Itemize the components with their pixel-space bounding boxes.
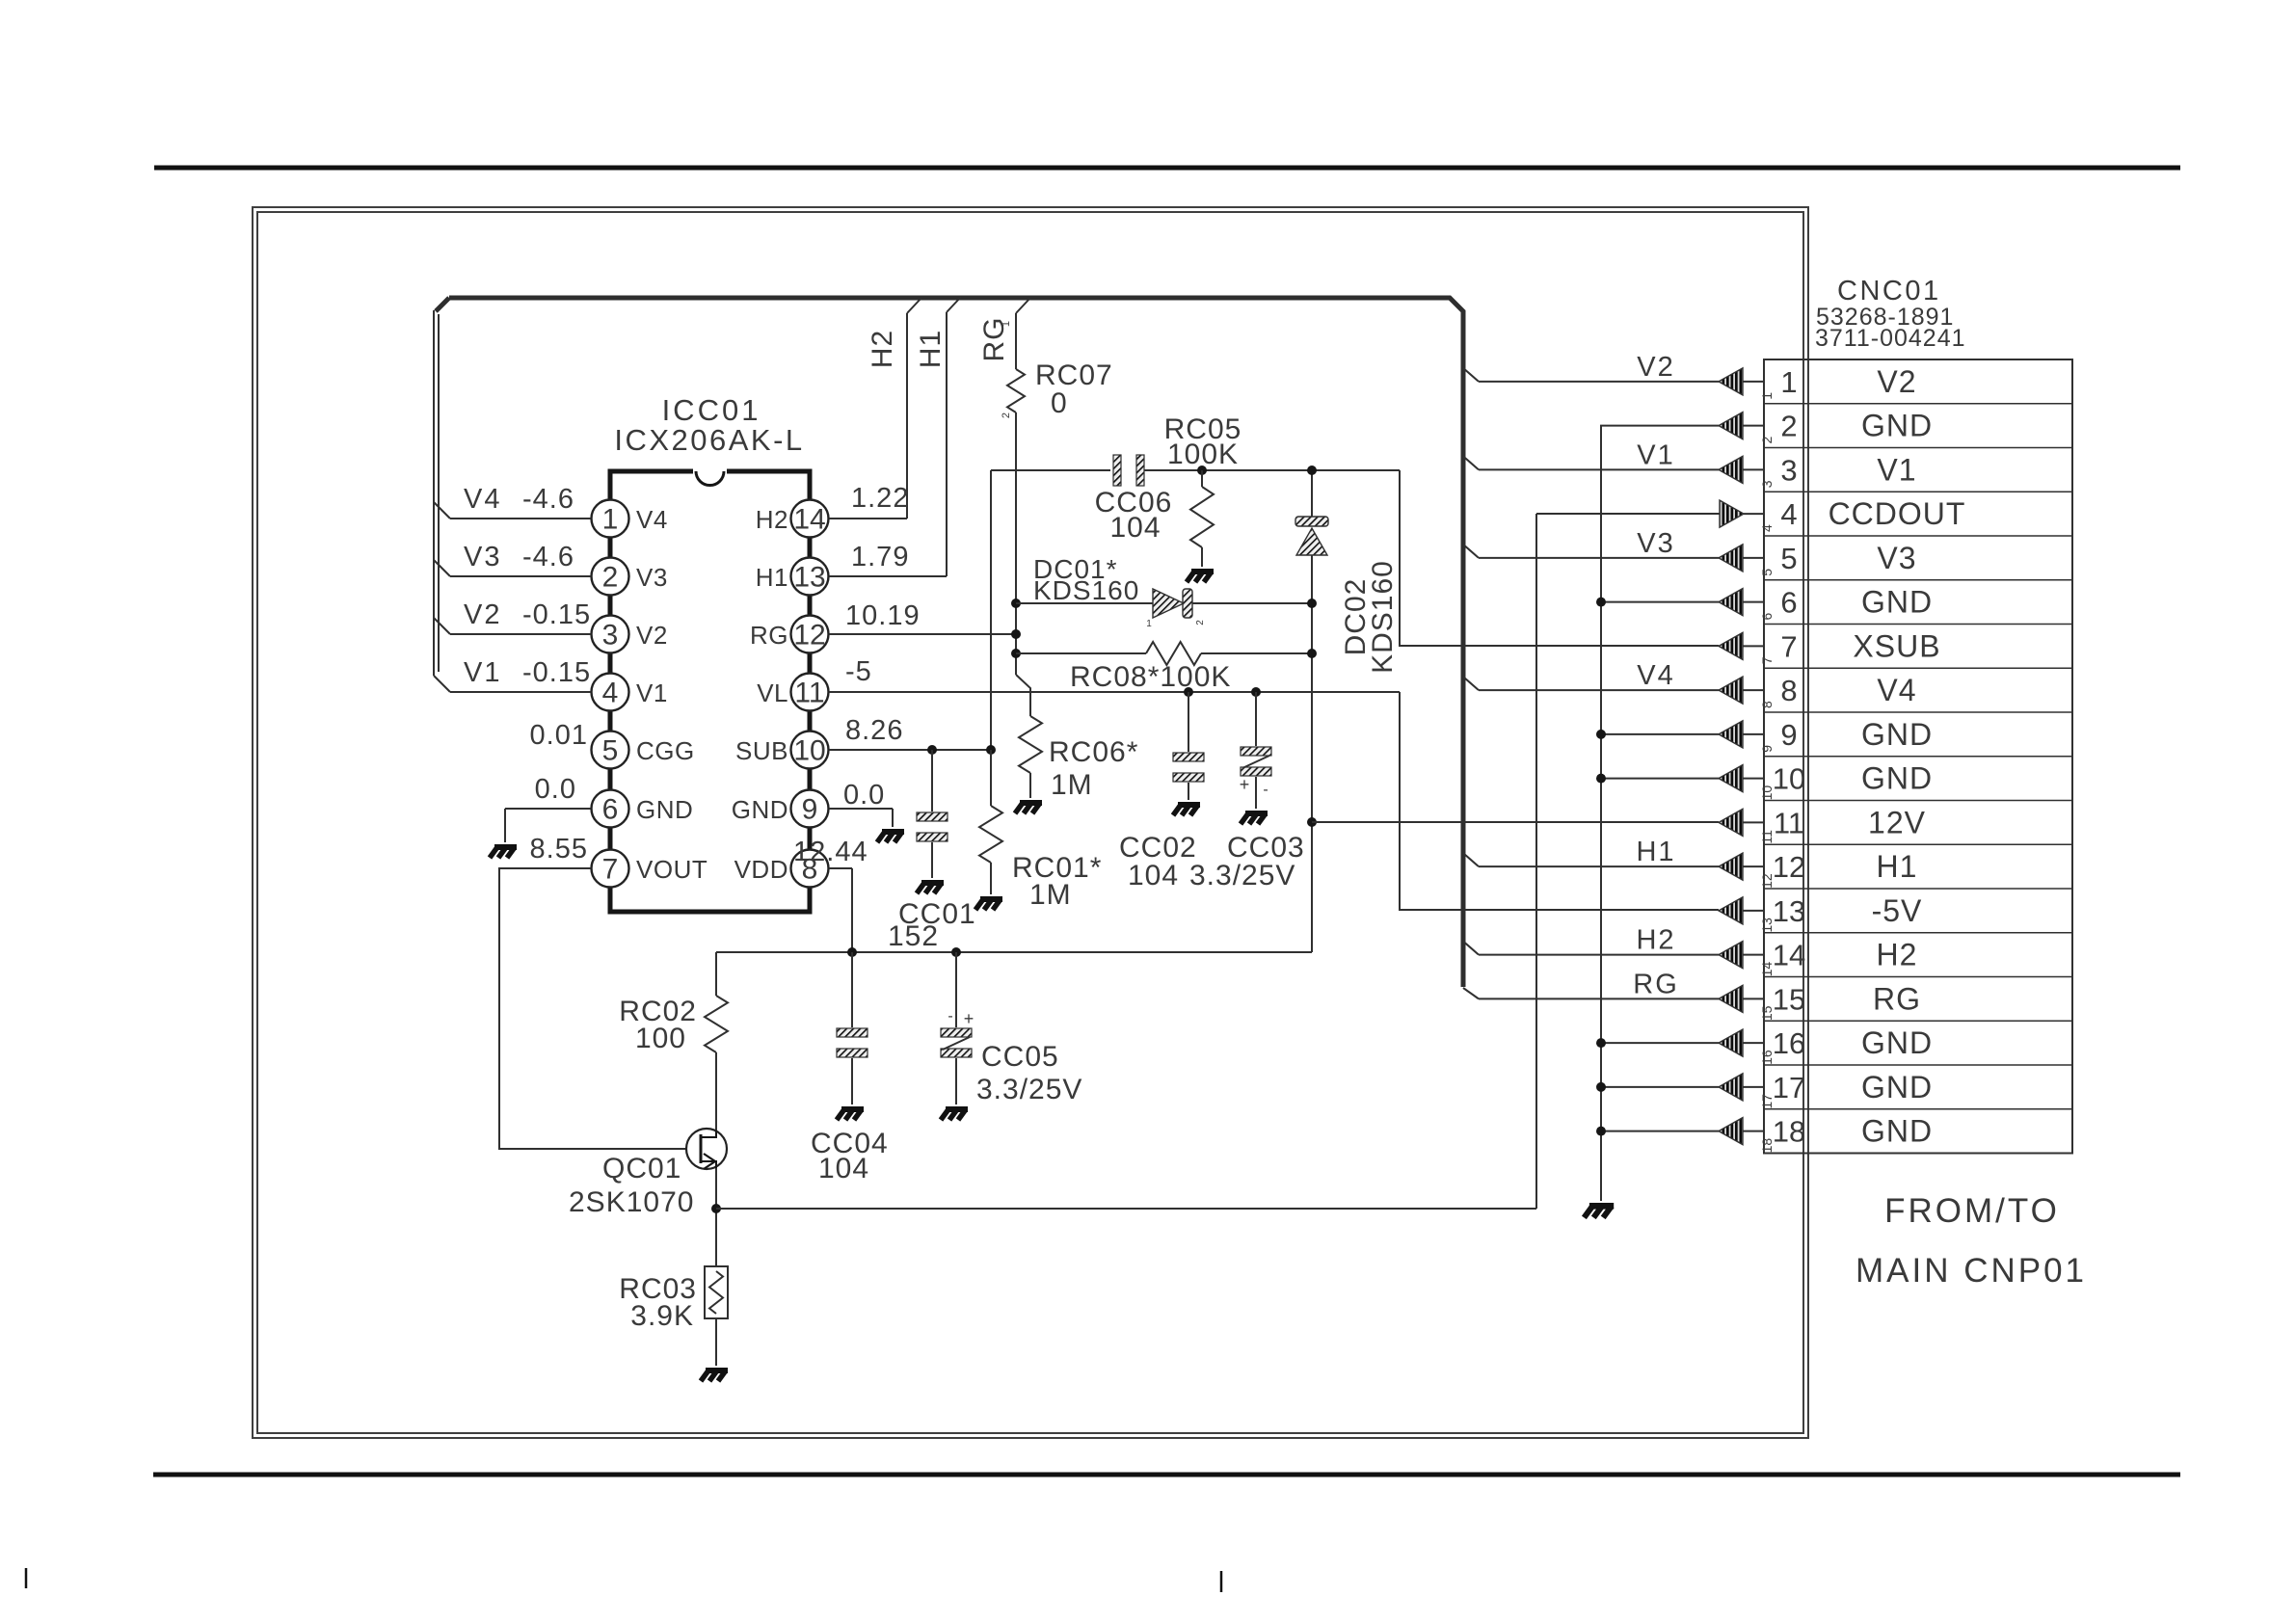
arrow pin4 (out) [1720, 500, 1764, 527]
svg-text:14: 14 [1759, 962, 1775, 977]
connector pin 11 name 12V [1868, 805, 1926, 839]
arrow pin11 (in) [1719, 809, 1764, 836]
label V3 -4.6 [464, 542, 574, 572]
capacitor CC06 [1113, 455, 1144, 486]
connector pin 15 name RG [1873, 981, 1921, 1016]
connector pin 4 number [1759, 497, 1798, 532]
svg-text:6: 6 [1780, 586, 1797, 620]
svg-text:5: 5 [1759, 569, 1775, 576]
svg-text:1M: 1M [1029, 879, 1072, 911]
svg-text:-0.15: -0.15 [522, 657, 591, 688]
svg-text:H1: H1 [915, 330, 947, 368]
arrow pin13 (in) [1719, 897, 1764, 924]
top rule [154, 166, 2180, 171]
svg-text:VL: VL [757, 678, 788, 707]
svg-text:V2: V2 [636, 621, 668, 650]
svg-text:152: 152 [888, 920, 939, 952]
svg-text:-5: -5 [845, 656, 872, 687]
ground CC05 [941, 1109, 968, 1120]
svg-text:+: + [964, 1009, 974, 1028]
svg-text:XSUB: XSUB [1853, 628, 1940, 663]
junction CC02 top [1184, 687, 1193, 697]
svg-text:2: 2 [1780, 410, 1797, 443]
junction CC03 top [1251, 687, 1261, 697]
svg-text:GND: GND [1861, 1025, 1933, 1060]
diode DC01 [1153, 589, 1192, 618]
wire RG stub to connector [1463, 988, 1719, 998]
svg-text:1.79: 1.79 [851, 542, 909, 572]
wire pin6 GND [505, 809, 591, 842]
arrow pin18 (in) [1719, 1118, 1764, 1145]
ground RC05 [1187, 572, 1214, 582]
junction VDD/CC05 [951, 947, 961, 957]
svg-text:3.3/25V: 3.3/25V [1189, 860, 1295, 891]
wire CC05 upper [955, 952, 957, 1027]
label 53268-1891 [1816, 304, 1954, 331]
wire GND pin9 [1601, 733, 1719, 735]
svg-text:V2: V2 [464, 599, 501, 630]
connector pin 13 name -5V [1872, 893, 1923, 928]
svg-text:10: 10 [1773, 762, 1805, 796]
wire H1 stub to connector [1463, 853, 1719, 866]
wire RC01 upper [990, 750, 992, 806]
IC pin 8 (VDD) [734, 850, 829, 888]
connector pin 14 name H2 [1877, 938, 1918, 972]
label 0.01 pin5 [530, 720, 588, 751]
svg-text:GND: GND [636, 795, 693, 824]
arrow pin15 (in) [1719, 985, 1764, 1012]
connector pin 2 name GND [1861, 409, 1933, 443]
connector pin 8 number [1759, 674, 1798, 708]
label DC02 (vert) [1340, 560, 1399, 674]
wire CC01 lower [931, 842, 933, 878]
svg-text:+: + [1240, 775, 1250, 794]
net label RG (vert) [978, 317, 1010, 362]
IC pin 1 (V4) [592, 500, 668, 538]
wire CC02 upper [1188, 692, 1189, 752]
label RC03 [619, 1273, 697, 1332]
wire 12V [1312, 821, 1719, 823]
wire VDD rail [716, 951, 1312, 953]
connector pin 3 name V1 [1877, 452, 1916, 487]
IC pin 9 (GND) [732, 790, 829, 828]
label 1.79 [851, 542, 909, 572]
connector pin 6 number [1759, 586, 1798, 621]
label V2 -0.15 [464, 599, 591, 630]
resistor RC07 [1007, 369, 1025, 412]
svg-text:13: 13 [1759, 918, 1775, 933]
outer border frame [253, 207, 1808, 1438]
connector pin 12 name H1 [1877, 849, 1918, 884]
wire CC02 lower [1188, 783, 1189, 800]
footer tick center [1220, 1571, 1223, 1592]
wire pin4 V1 [434, 676, 591, 692]
svg-text:12: 12 [793, 620, 825, 652]
svg-text:104: 104 [818, 1153, 869, 1184]
label V4 -4.6 [464, 484, 574, 515]
svg-text:0.0: 0.0 [535, 774, 576, 805]
IC pin 14 (H2) [756, 500, 829, 538]
svg-text:14: 14 [793, 504, 825, 536]
svg-text:12: 12 [1759, 873, 1775, 889]
junction GND pin6 [1596, 598, 1606, 607]
svg-text:RG: RG [750, 621, 788, 650]
label CC05 [976, 1041, 1082, 1105]
svg-text:V3: V3 [636, 563, 668, 592]
svg-text:8: 8 [1780, 674, 1797, 707]
svg-text:KDS160: KDS160 [1367, 560, 1399, 674]
connector pin 6 name GND [1861, 585, 1933, 620]
arrow pin10 (in) [1719, 765, 1764, 792]
svg-text:9: 9 [802, 794, 818, 826]
wire pin14 H2 [829, 298, 921, 519]
label -5 [845, 656, 872, 687]
svg-text:CNC01: CNC01 [1837, 276, 1941, 306]
svg-text:-: - [1263, 782, 1268, 798]
svg-text:4: 4 [602, 678, 619, 709]
svg-text:6: 6 [1759, 613, 1775, 621]
arrow pin14 (in) [1719, 942, 1764, 969]
wire pin12 RG [829, 633, 1016, 635]
connector pin 5 number [1759, 542, 1798, 576]
arrow pin3 (in) [1719, 456, 1764, 483]
wire pin10 SUB [829, 749, 991, 751]
connector pin 7 name XSUB [1853, 628, 1940, 663]
svg-text:H1: H1 [1636, 837, 1675, 867]
svg-text:2: 2 [602, 562, 619, 594]
label RC08*100K [1070, 661, 1231, 693]
connector pin 9 number [1759, 718, 1798, 753]
svg-text:VOUT: VOUT [636, 855, 707, 884]
wire RC05 leads [1201, 470, 1203, 567]
ground RC06 [1015, 803, 1042, 813]
IC pin 12 (RG) [750, 616, 829, 653]
ground CC04 [837, 1109, 864, 1120]
net label RG [1633, 969, 1679, 999]
wire CC04 lower [851, 1058, 853, 1104]
svg-text:MAIN CNP01: MAIN CNP01 [1855, 1252, 2087, 1290]
wire GND pin18 [1601, 1131, 1719, 1132]
connector pin 10 number [1759, 762, 1805, 801]
label 12.44 [793, 837, 868, 867]
svg-text:H2: H2 [867, 330, 898, 368]
svg-text:2: 2 [1195, 620, 1206, 625]
IC pin 4 (V1) [592, 674, 668, 711]
wire RC08 left [1016, 652, 1146, 654]
IC pin 13 (H1) [756, 558, 829, 596]
wire XSUB to connector [1400, 470, 1719, 646]
connector pin 4 name CCDOUT [1829, 496, 1966, 531]
svg-text:13: 13 [793, 562, 825, 594]
svg-text:2: 2 [1759, 437, 1775, 444]
svg-text:H2: H2 [756, 505, 788, 534]
svg-text:-: - [948, 1008, 952, 1024]
label V1 -0.15 [464, 657, 591, 688]
IC pin 10 (SUB) [735, 732, 828, 769]
wire pin8 VDD [829, 868, 852, 952]
wire pin7 VOUT to QC01 gate [499, 868, 686, 1149]
svg-text:V1: V1 [636, 678, 668, 707]
wire pin1 V4 [434, 502, 591, 519]
connector pin 2 number [1759, 410, 1798, 444]
capacitor CC01 [917, 812, 948, 841]
net label H2 [1636, 925, 1675, 956]
svg-text:1: 1 [1001, 321, 1012, 327]
label CC02 [1119, 832, 1197, 891]
junction GND pin9 [1596, 730, 1606, 739]
capacitor CC04 [837, 1028, 868, 1057]
ground GND bus [1584, 1206, 1614, 1217]
svg-text:RC06*: RC06* [1049, 736, 1138, 768]
IC label ICC01 [662, 393, 761, 427]
svg-text:1.22: 1.22 [851, 483, 909, 514]
ground pin6 [490, 847, 517, 858]
svg-text:104: 104 [1109, 512, 1161, 544]
svg-text:GND: GND [1861, 717, 1933, 752]
connector pin 10 name GND [1861, 761, 1933, 796]
svg-text:18: 18 [1759, 1138, 1775, 1154]
resistor RC02 [705, 996, 728, 1052]
resistor RC08 [1146, 642, 1201, 665]
IC pin 5 (CGG) [592, 732, 695, 769]
svg-text:KDS160: KDS160 [1033, 575, 1139, 605]
wire XSUB vertical left [990, 470, 992, 750]
IC label ICX206AK-L [614, 423, 804, 457]
ground RC03 [701, 1370, 728, 1381]
svg-text:GND: GND [1861, 409, 1933, 443]
wire CC04 upper [851, 952, 853, 1027]
wire V1 stub to connector [1463, 456, 1719, 469]
label 3711-004241 [1815, 325, 1966, 352]
ground RC01 [975, 899, 1002, 910]
svg-text:1: 1 [602, 504, 619, 536]
wire pin9 GND [829, 809, 893, 827]
svg-text:3.9K: 3.9K [630, 1300, 694, 1332]
svg-text:104: 104 [1128, 860, 1179, 891]
svg-text:-5V: -5V [1872, 893, 1923, 928]
svg-text:GND: GND [1861, 1114, 1933, 1149]
arrow pin16 (in) [1719, 1029, 1764, 1056]
junction SUB/RC01 [986, 745, 996, 755]
IC pin 11 (VL) [757, 674, 828, 711]
wire pin13 H1 [829, 297, 961, 576]
junction QC01/CCDOUT [711, 1204, 721, 1213]
connector pin 12 number [1759, 850, 1805, 889]
svg-text:1: 1 [1146, 619, 1152, 629]
wire RG vertical upper [1016, 298, 1030, 369]
svg-text:11: 11 [1759, 830, 1775, 844]
arrow pin7 (in) [1719, 632, 1764, 659]
junction DC02/RC08 [1307, 649, 1317, 658]
svg-text:3.3/25V: 3.3/25V [976, 1074, 1082, 1105]
wire RC02 to QC01 [715, 1052, 717, 1131]
connector pin 16 number [1759, 1026, 1805, 1065]
svg-text:11: 11 [1774, 806, 1804, 839]
connector pin 1 name V2 [1877, 364, 1916, 399]
svg-text:16: 16 [1759, 1050, 1775, 1065]
label CC03 [1189, 832, 1305, 891]
svg-text:GND: GND [1861, 1070, 1933, 1104]
wire DC01 cathode [1192, 602, 1312, 604]
svg-text:1: 1 [1780, 365, 1797, 399]
svg-text:ICX206AK-L: ICX206AK-L [614, 423, 804, 457]
label 1.22 [851, 483, 909, 514]
svg-text:RG: RG [1633, 969, 1679, 999]
svg-text:RG: RG [1873, 981, 1921, 1016]
svg-text:-0.15: -0.15 [522, 599, 591, 630]
svg-text:5: 5 [1780, 542, 1797, 575]
svg-text:3711-004241: 3711-004241 [1815, 325, 1966, 352]
svg-text:8.26: 8.26 [845, 715, 903, 746]
label 0.0 pin6 [535, 774, 576, 805]
wire H2 stub to connector [1463, 942, 1719, 955]
svg-text:9: 9 [1780, 718, 1797, 752]
net label H1 (vert) [915, 330, 947, 368]
wire CCDOUT [716, 514, 1720, 1209]
wire V3 stub to connector [1463, 545, 1719, 558]
svg-text:CC05: CC05 [981, 1041, 1059, 1073]
arrow pin17 (in) [1719, 1074, 1764, 1101]
capacitor CC02 [1173, 753, 1204, 782]
svg-text:H1: H1 [756, 563, 788, 592]
module outline top/right (thick) [449, 298, 1463, 987]
arrow pin9 (in) [1719, 721, 1764, 748]
svg-text:-4.6: -4.6 [522, 484, 574, 515]
module outline left bus [434, 310, 439, 676]
svg-text:15: 15 [1759, 1005, 1775, 1021]
label 8.26 [845, 715, 903, 746]
label CC01 [888, 898, 976, 952]
label RC01 [1012, 852, 1102, 911]
connector pin 14 number [1759, 939, 1805, 977]
label 8.55 pin7 [530, 834, 588, 865]
svg-text:12: 12 [1773, 850, 1805, 884]
svg-text:ICC01: ICC01 [662, 393, 761, 427]
svg-text:0.0: 0.0 [843, 780, 885, 811]
IC pin 7 (VOUT) [592, 850, 708, 888]
junction DC02 top [1307, 466, 1317, 475]
svg-text:17: 17 [1773, 1071, 1805, 1104]
svg-text:10: 10 [793, 735, 825, 767]
svg-text:3: 3 [602, 620, 619, 652]
arrow pin8 (in) [1719, 677, 1764, 704]
connector pin 11 number [1759, 806, 1804, 843]
svg-text:V1: V1 [1877, 452, 1916, 487]
svg-text:10.19: 10.19 [845, 600, 921, 631]
svg-text:2SK1070: 2SK1070 [569, 1186, 694, 1218]
resistor RC01 [979, 806, 1002, 863]
junction RG/pin12 [1011, 629, 1021, 639]
net label H1 [1636, 837, 1675, 867]
wire -5V to connector [1400, 692, 1719, 910]
wire pin11 VL -5 net [829, 691, 1400, 693]
svg-text:100K: 100K [1167, 439, 1239, 470]
connector CNC01 table [1764, 359, 2072, 1154]
arrow pin5 (in) [1719, 545, 1764, 572]
module outline left bevel [436, 298, 449, 311]
arrow pin1 (in) [1719, 368, 1764, 395]
junction SUB/CC01 [927, 745, 937, 755]
arrow pin6 (in) [1719, 589, 1764, 616]
label 0.0 pin9 [843, 780, 885, 811]
connector pin 17 name GND [1861, 1070, 1933, 1104]
label CNC01 [1837, 276, 1941, 306]
svg-text:16: 16 [1773, 1026, 1805, 1060]
IC pin 2 (V3) [592, 558, 668, 596]
svg-text:14: 14 [1773, 939, 1805, 972]
svg-text:GND: GND [1861, 761, 1933, 796]
label MAIN CNP01 [1855, 1252, 2087, 1290]
label CC06 [1095, 487, 1173, 544]
capacitor CC05 [941, 1008, 974, 1057]
label FROM/TO [1884, 1192, 2060, 1230]
label QC01 [569, 1153, 694, 1218]
svg-text:5: 5 [602, 735, 619, 767]
wire RC03 to ground [715, 1318, 717, 1366]
resistor RC03 (boxed) [705, 1266, 728, 1318]
ground CC03 [1241, 813, 1268, 824]
wire CC01 upper [931, 750, 933, 811]
svg-text:GND: GND [1861, 585, 1933, 620]
svg-text:0.01: 0.01 [530, 720, 588, 751]
label DC01 [1033, 554, 1206, 629]
svg-text:CCDOUT: CCDOUT [1829, 496, 1966, 531]
wire RC08 right [1201, 652, 1312, 654]
net label V3 [1637, 528, 1674, 559]
svg-text:V3: V3 [1877, 541, 1916, 575]
ground CC01 [917, 883, 944, 893]
svg-text:RC07: RC07 [1035, 359, 1113, 391]
junction GND pin17 [1596, 1082, 1606, 1092]
connector pin 18 number [1759, 1115, 1805, 1154]
connector pin 17 number [1759, 1071, 1805, 1109]
junction RG/RC08 [1011, 649, 1021, 658]
junction GND pin16 [1596, 1038, 1606, 1048]
junction GND pin18 [1596, 1127, 1606, 1136]
svg-text:V4: V4 [1637, 660, 1674, 691]
svg-text:FROM/TO: FROM/TO [1884, 1192, 2060, 1230]
wire DC02 vertical [1311, 470, 1313, 952]
svg-text:V2: V2 [1637, 352, 1674, 383]
wire GND pin6 [1601, 601, 1719, 603]
net label V4 [1637, 660, 1674, 691]
IC ICC01 body [610, 467, 810, 912]
svg-text:11: 11 [794, 678, 824, 709]
label CC04 [811, 1128, 889, 1184]
svg-text:CGG: CGG [636, 736, 695, 765]
svg-text:H2: H2 [1877, 938, 1918, 972]
svg-text:V4: V4 [636, 505, 668, 534]
wire GND bus [1601, 426, 1719, 1201]
svg-text:GND: GND [732, 795, 788, 824]
connector pin 9 name GND [1861, 717, 1933, 752]
svg-text:8.55: 8.55 [530, 834, 588, 865]
connector pin 1 number [1759, 365, 1798, 400]
svg-text:9: 9 [1759, 745, 1775, 753]
svg-text:7: 7 [1780, 629, 1797, 663]
svg-text:QC01: QC01 [602, 1153, 681, 1184]
arrow pin2 (in) [1719, 412, 1764, 439]
wire RC06 to ground [1029, 773, 1031, 798]
svg-text:10: 10 [1759, 785, 1775, 801]
wire pin3 V2 [434, 618, 591, 634]
wire CC05 lower [955, 1058, 957, 1104]
transistor QC01 [686, 1129, 727, 1169]
net label V2 [1637, 352, 1674, 383]
label RC05 [1164, 413, 1242, 470]
svg-text:H2: H2 [1636, 925, 1675, 956]
wire XSUB horizontal [991, 469, 1400, 471]
